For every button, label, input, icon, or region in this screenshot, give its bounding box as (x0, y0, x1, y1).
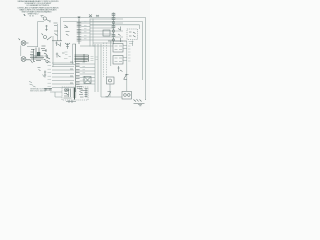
motor M1 (19, 39, 29, 46)
wire bottom rail (101, 96, 122, 98)
box B2 (107, 77, 115, 84)
relay stack K2 (112, 13, 115, 45)
box X1 (84, 77, 91, 84)
misc left-bottom marks (38, 68, 41, 71)
wire top border (61, 18, 146, 100)
transformer T1 windings (77, 17, 82, 45)
svg-text:SEE DWG 45N700: SEE DWG 45N700 (30, 90, 46, 92)
wire below DB2 (66, 100, 76, 103)
svg-text:NB: NB (30, 15, 35, 17)
notes text (30, 87, 47, 92)
wire lower taps (80, 64, 95, 84)
lamp G1 (43, 17, 46, 20)
label marks center (64, 52, 71, 59)
wire into DB2 (50, 92, 62, 97)
bus rungs (90, 19, 113, 47)
relay marks inside DB2 (64, 89, 69, 96)
wire mid vertical (72, 44, 74, 64)
wire second top rail (63, 22, 143, 81)
wire mid rail (53, 64, 75, 66)
transformer T3 core (73, 88, 76, 100)
wire third top rail (90, 25, 140, 29)
breaker column mid-bottom (104, 43, 107, 78)
wire mid verticals (60, 18, 62, 42)
wire motor link (20, 46, 22, 57)
ladder rungs (48, 62, 75, 88)
contact marks right (118, 27, 121, 43)
arrester A1 (65, 43, 70, 49)
wire top-left rail (38, 21, 45, 23)
dashed box DB2 (62, 87, 88, 100)
tap labels (84, 22, 87, 39)
wire box links (123, 46, 127, 61)
box B1 (103, 30, 110, 36)
title text block (18, 0, 60, 17)
meter box MB (122, 92, 132, 100)
contact K3 (55, 42, 60, 47)
wire left drop (37, 22, 39, 48)
wire relay taps (115, 19, 123, 41)
relay K1 contacts cluster (54, 23, 69, 28)
lower cluster marks (77, 87, 85, 91)
wire stub (132, 41, 134, 47)
scale bar (44, 88, 52, 91)
wire winding taps (81, 23, 90, 40)
terminal cluster A (30, 46, 50, 63)
limit box LS1 (113, 44, 123, 53)
motor M2 (21, 57, 32, 63)
ground G (134, 99, 146, 104)
left vertical bus lower (75, 44, 77, 92)
wire panel header (108, 40, 127, 42)
contact K4 (56, 53, 65, 58)
wire motor rail (27, 46, 38, 48)
limit box LS2 (113, 56, 123, 65)
fuse F1 (89, 15, 99, 18)
dashed box DB1 (127, 29, 138, 40)
contact marks (118, 66, 123, 72)
label marks TR (129, 42, 134, 44)
transformer T2 windings (76, 64, 80, 85)
right bus triple (95, 44, 101, 97)
bundle labels (91, 57, 99, 61)
wire bus top links (80, 45, 95, 47)
terminal ticks (128, 46, 131, 61)
switch SW3 (106, 92, 112, 97)
switch S1 (45, 25, 47, 31)
wire cross rail (52, 40, 62, 42)
conductor bundle (75, 54, 89, 62)
node mark top-left (24, 14, 26, 16)
lamp G2 (44, 36, 47, 39)
switch SW2 (124, 74, 129, 80)
